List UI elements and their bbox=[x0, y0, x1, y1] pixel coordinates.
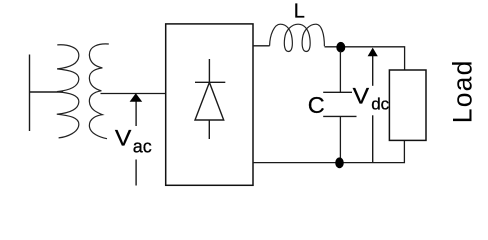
voltage arrow Vdc shaft bbox=[372, 54, 374, 162]
voltage arrow Vac shaft bbox=[135, 99, 137, 186]
diode D1 lower lead bbox=[208, 120, 210, 139]
svg-text:L: L bbox=[294, 1, 305, 23]
voltage arrow Vac head bbox=[130, 93, 143, 102]
voltage arrow Vdc head bbox=[368, 48, 378, 57]
capacitor C1 top plate bbox=[323, 91, 356, 93]
svg-text:V: V bbox=[353, 84, 370, 109]
diode D1 triangle bbox=[195, 82, 224, 120]
diode D1 anode lead bbox=[208, 59, 210, 82]
junction node bottom bbox=[335, 157, 344, 168]
diode D1 cathode bar bbox=[195, 81, 225, 83]
wire inductor to load corner bbox=[325, 47, 405, 70]
label Vac background bbox=[112, 126, 157, 160]
bottom wire rectifier to load bbox=[253, 140, 404, 162]
inductor L coil bbox=[270, 24, 325, 51]
capacitor C1 top lead bbox=[339, 51, 341, 92]
junction node top bbox=[336, 42, 345, 53]
capacitor C1 bottom lead bbox=[339, 116, 341, 158]
label Vdc background bbox=[352, 86, 388, 116]
wire secondary to rectifier bbox=[101, 93, 166, 95]
svg-text:ac: ac bbox=[133, 137, 152, 157]
transformer T1 secondary winding bbox=[89, 44, 108, 139]
load resistor box bbox=[389, 70, 426, 140]
capacitor C1 bottom plate bbox=[323, 115, 356, 117]
svg-text:Load: Load bbox=[447, 59, 477, 123]
svg-text:dc: dc bbox=[371, 94, 389, 113]
transformer T1 primary winding bbox=[57, 45, 79, 138]
rectifier bridge box U1 bbox=[166, 24, 253, 185]
svg-text:C: C bbox=[308, 92, 325, 118]
svg-text:V: V bbox=[115, 126, 131, 151]
wire rectifier to inductor bbox=[253, 45, 270, 47]
node left terminal T bbox=[30, 55, 64, 132]
